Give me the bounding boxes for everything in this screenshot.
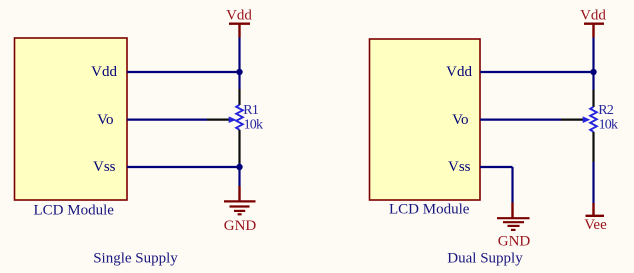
- junction node B (left): [236, 164, 242, 170]
- power Vee (right): [584, 203, 607, 233]
- wire node C to R2 (right): [592, 72, 594, 90]
- wire R2 to Vee (right): [592, 162, 594, 203]
- wire Vss pin to GND drop (right): [480, 166, 513, 168]
- svg-text:GND: GND: [224, 218, 257, 234]
- svg-text:Vss: Vss: [93, 159, 116, 175]
- R1 pin 1 lead (black): [238, 89, 240, 105]
- svg-text:Vdd: Vdd: [446, 64, 472, 80]
- potentiometer R2 body: [583, 107, 597, 132]
- svg-text:Vss: Vss: [448, 159, 471, 175]
- wiper pin lead (left, black): [207, 118, 230, 120]
- svg-text:10k: 10k: [599, 118, 618, 133]
- svg-text:LCD Module: LCD Module: [389, 202, 470, 218]
- wire Vdd power to node C (right): [592, 38, 594, 73]
- power Vdd (left): [226, 8, 252, 38]
- potentiometer R1 body: [229, 105, 243, 130]
- wire Vo pin to wiper (left): [127, 118, 207, 120]
- wiper pin lead (right, black): [561, 118, 584, 120]
- svg-text:Vdd: Vdd: [580, 8, 606, 24]
- svg-text:Vo: Vo: [452, 112, 468, 128]
- LCD module body (right): [370, 39, 481, 200]
- junction node A (left): [236, 69, 242, 75]
- wire Vdd pin to node C (right): [480, 71, 594, 73]
- wire Vo pin to wiper (right): [480, 118, 561, 120]
- wire GND drop vertical (right): [511, 167, 513, 203]
- R2 pin 3 lead (black): [592, 132, 594, 162]
- svg-text:Vee: Vee: [584, 217, 607, 233]
- svg-text:Vdd: Vdd: [226, 8, 252, 24]
- wire Vdd pin to node A (left): [127, 71, 240, 73]
- svg-text:R2: R2: [598, 103, 614, 118]
- svg-text:Dual Supply: Dual Supply: [447, 251, 523, 267]
- power Vdd (right): [580, 8, 606, 38]
- R2 pin 1 lead (black): [592, 90, 594, 107]
- wire Vdd power to node A (left): [238, 38, 240, 73]
- wire node A to R1 (left): [238, 72, 240, 89]
- R1 pin 3 lead (black): [238, 130, 240, 163]
- svg-text:Vo: Vo: [97, 112, 113, 128]
- svg-text:10k: 10k: [244, 118, 263, 133]
- wire Vss pin to node B (left): [127, 166, 240, 168]
- svg-text:R1: R1: [243, 103, 259, 118]
- svg-text:Single Supply: Single Supply: [93, 250, 178, 266]
- LCD module body (left): [15, 38, 128, 200]
- svg-text:Vdd: Vdd: [91, 64, 117, 80]
- ground GND (right): [497, 203, 530, 250]
- wire R1 to node B (left): [238, 163, 240, 186]
- svg-text:GND: GND: [498, 234, 531, 250]
- ground GND (left): [224, 186, 257, 234]
- junction node C (right): [590, 69, 596, 75]
- svg-text:LCD Module: LCD Module: [34, 203, 115, 219]
